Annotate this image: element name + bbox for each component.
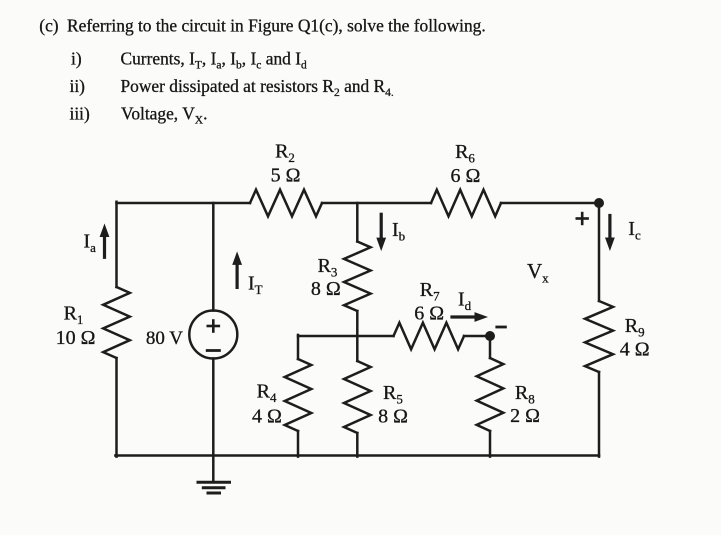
svg-text:10 Ω: 10 Ω <box>56 327 96 349</box>
svg-text:8 Ω: 8 Ω <box>311 278 341 300</box>
svg-text:(c): (c) <box>39 16 59 36</box>
svg-text:4 Ω: 4 Ω <box>620 339 650 361</box>
svg-text:6 Ω: 6 Ω <box>450 165 480 187</box>
svg-text:i): i) <box>71 49 82 69</box>
svg-text:4 Ω: 4 Ω <box>252 405 282 427</box>
svg-text:6 Ω: 6 Ω <box>414 303 444 325</box>
svg-text:80 V: 80 V <box>146 328 183 349</box>
svg-text:2 Ω: 2 Ω <box>510 405 540 427</box>
svg-text:iii): iii) <box>70 104 90 124</box>
svg-text:5 Ω: 5 Ω <box>271 165 301 187</box>
svg-text:8 Ω: 8 Ω <box>378 406 408 428</box>
svg-text:Power dissipated at resistors: Power dissipated at resistors R2​ and R4… <box>121 76 394 99</box>
svg-text:Currents, IT​, Ia​, Ib​, Ic​ a: Currents, IT​, Ia​, Ib​, Ic​ and Id​ <box>121 49 308 72</box>
svg-text:ii): ii) <box>70 76 86 96</box>
svg-text:Referring to the circuit in Fi: Referring to the circuit in Figure Q1(c)… <box>67 16 486 36</box>
svg-text:Voltage, VX​.: Voltage, VX​. <box>121 104 207 127</box>
